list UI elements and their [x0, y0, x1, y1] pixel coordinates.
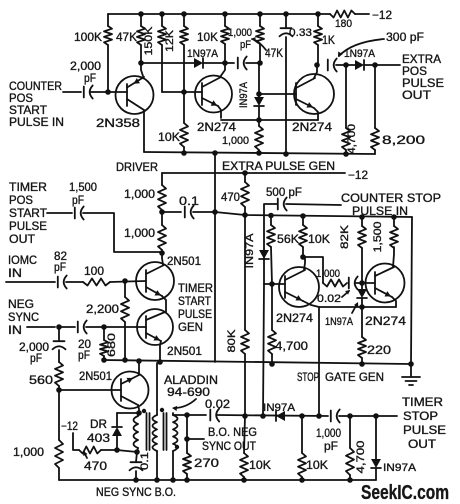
diode DR403: [112, 413, 122, 450]
label TIMER START PULSE GEN: [178, 281, 213, 334]
node 4700sg-rail: [269, 361, 275, 367]
node bo top: [184, 412, 190, 418]
svg-text:IN97A: IN97A: [263, 402, 296, 414]
wire -12 bracket: [73, 433, 79, 450]
wire bo cap: [187, 414, 206, 416]
wire ground column: [411, 217, 412, 364]
node rail S2: [170, 477, 176, 483]
svg-text:1K: 1K: [322, 33, 335, 47]
wire bottom rail: [59, 479, 376, 481]
svg-text:403: 403: [87, 431, 110, 445]
wire 470-dr: [101, 449, 117, 451]
node timer wire: [159, 250, 165, 256]
resistor 680: [100, 327, 108, 360]
svg-text:1N97A: 1N97A: [325, 316, 354, 328]
label 0.02 out: [205, 397, 230, 411]
label 560: [29, 373, 53, 387]
svg-text:POS: POS: [9, 193, 33, 207]
svg-text:STOP: STOP: [403, 409, 438, 423]
resistor 10K top: [221, 14, 229, 63]
svg-text:IN97A: IN97A: [383, 462, 417, 474]
capacitor 1500pF: [75, 207, 84, 220]
resistor 1K: [314, 14, 322, 65]
svg-text:1,000: 1,000: [13, 445, 44, 459]
svg-text:B.O. NEG: B.O. NEG: [208, 425, 257, 439]
label 0.02 coupling: [317, 293, 341, 305]
svg-text:PULSE: PULSE: [178, 307, 212, 321]
svg-text:2,200: 2,200: [86, 302, 119, 316]
svg-text:GEN: GEN: [178, 320, 203, 334]
svg-text:2N274: 2N274: [365, 314, 406, 328]
resistor 10K bottom1: [240, 416, 248, 480]
svg-text:SYNC OUT: SYNC OUT: [202, 439, 257, 453]
label 1000 coupling: [316, 268, 340, 280]
node rail 10K2: [299, 477, 305, 483]
label STOP GATE GEN: [297, 370, 384, 384]
node 47K2 bottom: [257, 60, 263, 66]
node rail-10K: [222, 11, 228, 17]
svg-text:IN: IN: [8, 323, 22, 337]
wire 0.1 left: [162, 211, 181, 213]
label 180: [335, 18, 352, 30]
capacitor 1000pF: [238, 57, 247, 70]
svg-text:100: 100: [84, 264, 104, 278]
svg-text:GATE GEN: GATE GEN: [325, 370, 384, 384]
wire timer stop descender: [318, 307, 320, 416]
svg-text:0.02: 0.02: [317, 293, 341, 305]
node 10K bottom: [222, 60, 228, 66]
label 470 mid: [221, 190, 240, 204]
svg-text:8,200: 8,200: [382, 133, 425, 147]
svg-text:1N97A: 1N97A: [344, 48, 376, 60]
wire emitter stopgate: [319, 306, 396, 308]
node 56K top: [268, 213, 274, 219]
label D2 1N97A: [344, 48, 376, 60]
node collector Q8: [136, 410, 142, 416]
node rail-47K: [138, 11, 144, 17]
label 4700 bottom rotated: [355, 441, 367, 474]
resistor 47K second: [256, 14, 264, 63]
arrow D5: [352, 302, 358, 313]
label 680 rotated: [106, 333, 118, 357]
node 1K bottom: [314, 62, 320, 68]
svg-text:1,000: 1,000: [228, 27, 252, 39]
node 4700b top: [347, 413, 353, 419]
label 2000pF: [70, 59, 101, 85]
node 1500 top: [391, 214, 397, 220]
label -12 mid: [348, 168, 368, 182]
svg-text:1,000: 1,000: [316, 268, 340, 280]
svg-text:500 pF: 500 pF: [266, 185, 302, 199]
label NEG SYNC BO: [96, 485, 176, 499]
label 4700 topright: [346, 124, 358, 154]
diode D3 1N97A: [254, 97, 264, 106]
arrow aladdin: [172, 399, 196, 411]
wire cap-47K2: [246, 62, 260, 64]
label Q2 2N274: [197, 120, 236, 134]
label Q8 2N501: [79, 369, 112, 383]
capacitor 2000pF input: [84, 86, 93, 99]
resistor 8200: [371, 65, 379, 154]
label 1000 bottom: [13, 445, 44, 459]
svg-text:560: 560: [29, 373, 53, 387]
svg-text:START: START: [9, 206, 48, 220]
label 10K bottom2: [306, 458, 328, 472]
label 1000pF out: [316, 426, 341, 453]
svg-text:12K: 12K: [164, 29, 176, 52]
label EXTRA PULSE GEN: [222, 159, 335, 173]
label Q5 2N274: [365, 314, 406, 328]
label 1000 b: [124, 226, 155, 240]
label 56K: [277, 232, 299, 246]
ground: [402, 364, 420, 385]
node 4700 top: [343, 62, 349, 68]
label 10K top: [197, 30, 218, 44]
wire stopgate rail: [103, 360, 411, 364]
svg-text:94-690: 94-690: [167, 385, 210, 399]
svg-text:DRIVER: DRIVER: [116, 160, 158, 174]
node rail 10K1: [241, 477, 247, 483]
label 0.33: [289, 27, 312, 39]
resistor 12K: [180, 14, 188, 92]
transformer T1 winding P: [134, 413, 139, 452]
node 80K out: [242, 413, 248, 419]
label IOMC IN: [8, 253, 37, 280]
label NEG SYNC IN: [8, 297, 39, 337]
node descend out: [316, 413, 322, 419]
node 2200 top: [122, 278, 128, 284]
diode D7 1N97A: [371, 416, 381, 480]
label 10K driver: [158, 130, 180, 144]
resistor 4700 stopgate: [268, 284, 276, 364]
node rail 270: [184, 477, 190, 483]
label 12K: [164, 29, 176, 52]
label Q4 2N274: [276, 311, 313, 325]
label 1000pF: [228, 27, 252, 51]
node 2200 rail: [122, 357, 128, 363]
svg-text:TIMER: TIMER: [9, 180, 47, 194]
phase dot S1: [160, 408, 164, 412]
transformer T1 core: [147, 413, 167, 450]
node 1000-rail: [256, 150, 262, 156]
wire cap to base: [91, 91, 127, 93]
label Q7 2N501: [167, 344, 202, 358]
label 2000pF shunt: [19, 340, 49, 365]
svg-text:2N501: 2N501: [167, 344, 202, 358]
svg-text:OUT: OUT: [9, 232, 36, 246]
label 150K: [143, 26, 155, 56]
label 100K: [74, 30, 102, 44]
wire iomc a: [6, 281, 55, 283]
arrow 300pF: [338, 39, 384, 57]
resistor 1000 coupling: [323, 280, 347, 287]
svg-text:220: 220: [367, 343, 391, 357]
node rail 4700: [347, 477, 353, 483]
resistor 56K: [267, 215, 275, 284]
resistor 1000 a: [158, 173, 166, 212]
resistor 470 bottom: [79, 447, 101, 454]
label ALADDIN 94-690: [164, 373, 218, 399]
node base Q5: [359, 280, 365, 286]
node rail-descend: [212, 150, 218, 156]
svg-text:470: 470: [84, 459, 107, 473]
wire stopgate top: [215, 212, 412, 217]
label -12 bottom: [61, 419, 78, 433]
svg-text:1,000: 1,000: [222, 135, 249, 147]
label D4 1N97A rotated: [244, 233, 256, 269]
svg-text:DR: DR: [90, 417, 107, 431]
svg-text:270: 270: [194, 456, 219, 470]
label -12 top: [372, 8, 392, 22]
svg-text:STOP: STOP: [297, 370, 319, 384]
wire base Q4: [264, 283, 285, 285]
svg-text:SYNC: SYNC: [8, 310, 39, 324]
svg-text:pF: pF: [84, 71, 96, 85]
label 500pF: [266, 185, 302, 199]
capacitor 0.02 out: [210, 409, 219, 422]
node 12K-base: [181, 89, 187, 95]
svg-text:1,000: 1,000: [124, 226, 155, 240]
wire base Q8: [59, 389, 121, 391]
label BO NEG SYNC OUT: [202, 425, 257, 453]
label 0.1 rotated: [139, 452, 151, 470]
svg-text:10K: 10K: [197, 30, 218, 44]
wire top -12 rail: [108, 13, 369, 15]
wire negsync a: [27, 326, 55, 328]
svg-text:−12: −12: [348, 168, 368, 182]
label COUNTER STOP PULSE IN: [341, 191, 441, 218]
wire S2 top: [173, 414, 187, 416]
svg-text:2N274: 2N274: [197, 120, 236, 134]
label 220: [367, 343, 391, 357]
label 100: [84, 264, 104, 278]
node gnd rail: [408, 361, 414, 367]
svg-text:2N501: 2N501: [79, 369, 112, 383]
svg-text:300 pF: 300 pF: [386, 30, 424, 44]
svg-text:82K: 82K: [339, 224, 351, 249]
svg-text:47K: 47K: [116, 30, 137, 44]
svg-text:PULSE: PULSE: [9, 219, 47, 233]
wire cap-node: [336, 64, 346, 66]
resistor 10K bottom2: [298, 416, 306, 480]
label Q6 2N501: [167, 254, 201, 268]
resistor 270: [183, 439, 191, 480]
node rail-12K: [181, 11, 187, 17]
svg-text:4,700: 4,700: [275, 339, 308, 353]
svg-text:10K: 10K: [308, 232, 330, 246]
wire negsync b: [59, 326, 75, 328]
svg-text:pF: pF: [30, 351, 42, 365]
wire collector coupling: [303, 257, 323, 283]
node collector Q4: [300, 254, 306, 260]
svg-text:4,700: 4,700: [355, 441, 367, 474]
resistor 2200: [121, 281, 129, 360]
wire diode-out: [364, 64, 400, 66]
svg-text:COUNTER STOP: COUNTER STOP: [341, 191, 441, 205]
diode D1 1N97A: [194, 58, 203, 68]
diode D6 1N97A: [276, 411, 285, 421]
node rail-47K2: [257, 11, 263, 17]
wire 0.1 right: [193, 211, 215, 213]
label 1000 a: [124, 187, 155, 201]
label 1000 emitter: [222, 135, 249, 147]
wire D3-emitters: [258, 106, 260, 120]
node 4700-rail: [343, 151, 349, 157]
svg-text:56K: 56K: [277, 232, 299, 246]
svg-text:START: START: [178, 294, 212, 308]
node 10K-rail: [181, 150, 187, 156]
label DRIVER: [116, 160, 158, 174]
node 560 bottom: [56, 387, 62, 393]
wire 500pF left: [286, 204, 341, 205]
label D5 1N97A: [325, 316, 354, 328]
label EXTRA POS PULSE OUT: [402, 52, 444, 102]
svg-text:0.1: 0.1: [139, 452, 151, 470]
resistor 220: [358, 307, 366, 364]
label 270: [194, 456, 219, 470]
svg-text:80K: 80K: [226, 329, 238, 353]
svg-text:1,000: 1,000: [124, 187, 155, 201]
node 8200 top: [372, 62, 378, 68]
label 4700 stopgate: [275, 339, 308, 353]
wire iomc b: [66, 281, 83, 283]
node rail 0.1: [133, 477, 139, 483]
svg-text:1,500: 1,500: [372, 222, 384, 253]
label 47K second: [265, 46, 283, 60]
node 0.33-rail: [283, 151, 289, 157]
svg-text:NEG SYNC B.O.: NEG SYNC B.O.: [96, 485, 176, 499]
node emitter Q8 rail: [136, 358, 142, 364]
svg-text:100K: 100K: [74, 30, 102, 44]
svg-text:150K: 150K: [143, 26, 155, 56]
svg-text:pF: pF: [72, 193, 84, 207]
label D6 1N97A: [263, 402, 296, 414]
wire base bus Q2: [162, 91, 202, 93]
phase dot S2: [175, 445, 179, 449]
wire 47K-diode: [141, 62, 194, 64]
svg-text:0.33: 0.33: [289, 27, 312, 39]
svg-text:180: 180: [335, 18, 352, 30]
node 0.1 right: [212, 209, 218, 215]
svg-text:IN: IN: [8, 266, 22, 280]
svg-text:OUT: OUT: [408, 437, 437, 451]
svg-text:pF: pF: [78, 348, 90, 362]
node emitter Q5 line: [359, 304, 365, 310]
resistor 1000 bottom: [55, 390, 63, 480]
transistor Q6 2N501: [136, 253, 174, 312]
svg-text:10K: 10K: [249, 458, 271, 472]
node xfmr left bottom: [134, 449, 140, 455]
transformer T1 winding S2: [173, 413, 178, 480]
capacitor 82pF: [58, 276, 67, 289]
capacitor 0.33: [280, 14, 293, 154]
label D7 1N97A: [383, 462, 417, 474]
transformer T1 winding S1: [153, 363, 158, 480]
label 1500 rotated: [372, 222, 384, 253]
node 2000pF top: [56, 324, 62, 330]
resistor 80K: [241, 215, 249, 416]
node diode col base: [256, 91, 262, 97]
node 10K4 top: [299, 413, 305, 419]
arrow 0.02: [342, 290, 350, 297]
arrow 470: [83, 451, 87, 458]
resistor 82K: [358, 217, 366, 283]
capacitor 1000pF out: [331, 410, 340, 423]
node D7 top: [373, 413, 379, 419]
svg-text:1N97A: 1N97A: [187, 48, 219, 60]
label 470 bottom: [84, 459, 107, 473]
label 8200: [382, 133, 425, 147]
capacitor 0.02 coupling: [349, 277, 358, 290]
svg-text:1,000: 1,000: [316, 426, 341, 440]
capacitor 20pF: [78, 321, 87, 334]
svg-text:PULSE: PULSE: [403, 423, 446, 437]
label DR 403: [87, 417, 110, 445]
resistor 470 mid: [241, 173, 249, 215]
svg-text:pF: pF: [54, 260, 66, 274]
transistor Q8 2N501: [112, 361, 149, 413]
svg-text:PULSE IN: PULSE IN: [9, 115, 64, 129]
node emitter line: [256, 117, 262, 123]
wire base Q3: [259, 93, 296, 95]
resistor 10K stopgate: [299, 216, 307, 257]
resistor 150K: [158, 14, 166, 92]
svg-text:−12: −12: [372, 8, 392, 22]
label 80K rotated: [226, 329, 238, 353]
watermark SeekIC.com: [361, 482, 449, 504]
node rail-1K: [315, 11, 321, 17]
svg-text:pF: pF: [240, 39, 251, 51]
node emitter Q7: [157, 359, 163, 365]
label COUNTER POS START PULSE IN: [9, 79, 64, 129]
wire 100-base: [110, 281, 146, 282]
svg-text:1,500: 1,500: [69, 180, 97, 194]
label 10K bottom1: [249, 458, 271, 472]
resistor 1000 b: [158, 212, 166, 253]
diode D2 1N97A: [355, 60, 364, 70]
capacitor 0.1: [185, 206, 194, 219]
diode D4 1N97A: [259, 250, 269, 259]
svg-text:2N274: 2N274: [292, 120, 332, 134]
svg-text:680: 680: [106, 333, 118, 357]
phase dot P: [142, 409, 146, 413]
svg-text:IOMC: IOMC: [8, 253, 37, 267]
node base 2N358: [105, 89, 111, 95]
transistor Q2 2N274: [195, 63, 232, 118]
svg-text:47K: 47K: [265, 46, 283, 60]
svg-text:2N274: 2N274: [276, 311, 313, 325]
node dr403 bottom: [114, 447, 120, 453]
wire bo stub: [187, 415, 204, 439]
label 300pF: [386, 30, 424, 44]
transistor Q1 2N358: [116, 63, 154, 152]
wire 264 down: [263, 284, 264, 416]
node bo stub: [184, 436, 190, 442]
node 0.1 junction: [159, 209, 165, 215]
resistor 10K driver: [180, 92, 188, 153]
svg-text:pF: pF: [324, 439, 338, 453]
wire 10K-cap: [225, 62, 234, 64]
resistor 4700 topright: [342, 65, 350, 154]
label D3 1N97A rotated: [238, 81, 250, 108]
svg-text:NEG: NEG: [8, 297, 34, 311]
transistor Q5 2N274: [366, 247, 405, 307]
wire dr-transformer: [117, 450, 137, 452]
wire timer out a: [47, 212, 72, 214]
label 47K: [116, 30, 137, 44]
capacitor 0.1 xfmr: [130, 452, 143, 480]
label 0.1: [179, 194, 199, 208]
